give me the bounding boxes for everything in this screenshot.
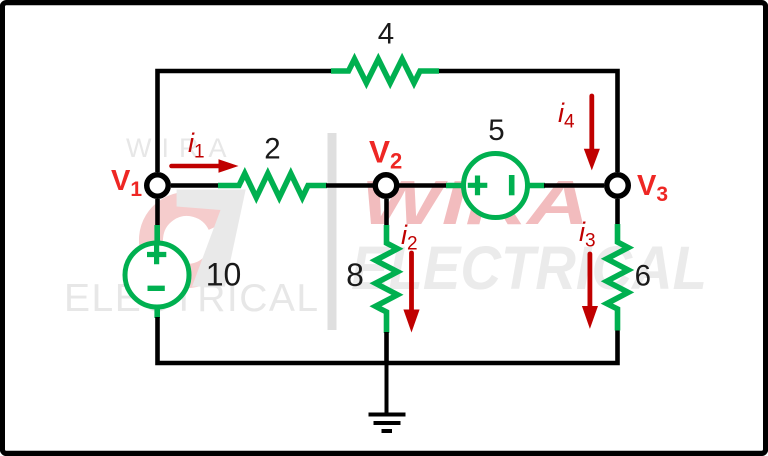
wire: V1 to R2 (black part) xyxy=(171,183,219,188)
wire: source 5 to V3 (green lead then black) xyxy=(526,183,545,189)
svg-text:6: 6 xyxy=(635,260,651,293)
resistor R4 (4 ohm, top) xyxy=(331,59,439,83)
wire: bottom right segment (ground junction to V3 leg) xyxy=(387,330,620,363)
current arrow i2 xyxy=(403,253,419,333)
resistor R8 (8 ohm, below V2) xyxy=(376,225,398,333)
voltage source U10 (10 V, below V1) xyxy=(125,243,189,307)
wire: source 10 down to bottom-left corner xyxy=(154,306,160,319)
watermark: light red C ring logo xyxy=(151,204,220,276)
plus mark of U5 xyxy=(468,176,488,196)
minus mark of U5 (vertical bar) xyxy=(509,175,515,195)
current arrow i1 xyxy=(172,159,239,172)
current arrow i3 xyxy=(582,254,598,329)
svg-text:2: 2 xyxy=(264,132,280,165)
plus mark of U10 xyxy=(147,245,166,264)
wire: top-left vertical (V1 to top wire) xyxy=(158,71,332,172)
ground xyxy=(369,363,406,431)
voltage source U5 (5 V, between V2 and V3) xyxy=(464,154,528,218)
wire: R2 to V2 (black part) xyxy=(326,183,373,188)
wire: R8 to bottom wire (black part) xyxy=(384,332,389,363)
node V2 xyxy=(375,175,397,197)
resistor R2 (2 ohm, V1-V2) xyxy=(218,174,327,198)
wire: V3 down to R6 (black part) xyxy=(615,199,620,225)
wire: V2 down to R8 (black part) xyxy=(384,199,389,226)
wire: top right segment (resistor 4 to top-right corner down to V3) xyxy=(439,69,618,172)
current arrow i4 xyxy=(584,96,600,170)
minus mark of U10 xyxy=(148,286,165,291)
watermark: gray separator bar xyxy=(328,133,337,330)
svg-text:8: 8 xyxy=(346,257,364,293)
wire: V1 down to source 10 (black then green lead) xyxy=(155,199,160,226)
svg-text:5: 5 xyxy=(488,114,504,147)
svg-text:WIRA: WIRA xyxy=(126,133,237,163)
resistor R6 (6 ohm, below V3) xyxy=(607,224,628,331)
svg-text:10: 10 xyxy=(206,257,242,293)
node V1 xyxy=(147,175,169,197)
svg-text:4: 4 xyxy=(378,18,394,51)
watermark: light gray lightning bolt logo xyxy=(177,190,246,287)
wire: V2 to source 5 (black then green lead) xyxy=(399,183,447,188)
node V3 xyxy=(607,175,629,197)
